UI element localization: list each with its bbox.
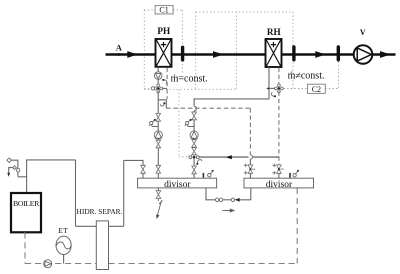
PH balancing tap circle bbox=[150, 122, 153, 125]
riser crossing hop bbox=[250, 155, 252, 159]
duct arrow 4 bbox=[380, 51, 390, 58]
RH supply crossing hop bbox=[194, 106, 196, 111]
safety valve group tee wire bbox=[11, 160, 26, 177]
wire separator to left divisor bbox=[124, 160, 143, 178]
duct arrow 1 bbox=[127, 51, 138, 58]
heat exchanger RH plus bbox=[271, 42, 276, 47]
drain continuation zigzag bbox=[157, 199, 162, 217]
dotted boundary C1 top edge bbox=[144, 9, 182, 11]
RH coil left pipe wire bbox=[194, 67, 269, 106]
PH valve right port wire bbox=[163, 87, 167, 89]
RH balancing tap connector wire bbox=[187, 125, 194, 127]
hydraulic separator left side wire bbox=[75, 160, 77, 226]
check valve circle bbox=[231, 198, 234, 201]
safety group diamond fitting bbox=[7, 158, 12, 163]
safety valve diamond bbox=[13, 166, 17, 170]
RH mixing valve center dot bbox=[278, 87, 280, 89]
air duct segment 2 bbox=[172, 53, 266, 56]
RH supply pipe wire bbox=[193, 111, 195, 178]
check valve arrow bbox=[235, 198, 240, 202]
safety discharge wire bbox=[9, 168, 13, 173]
pump PH coil rotor bbox=[156, 73, 161, 78]
left divisor sensor bar bbox=[203, 173, 205, 178]
dotted sensor line C2 to valve bbox=[284, 88, 339, 90]
PH shutoff valve 1 bbox=[156, 113, 161, 121]
RH shutoff valve 2a bbox=[192, 140, 197, 147]
svg-text:ṁ≠const.: ṁ≠const. bbox=[288, 71, 325, 82]
valve on separator feed bbox=[141, 165, 146, 173]
pump P1 circle bbox=[154, 131, 162, 139]
PH bypass elbow wire bbox=[158, 100, 166, 108]
PH pipe wire bbox=[157, 121, 159, 131]
PH mixing valve 4-port bbox=[154, 84, 163, 93]
left divisor drain valve bbox=[156, 191, 161, 199]
regulating valve right divisor 1 bbox=[244, 164, 255, 175]
RH return dashed pipe lower bbox=[278, 92, 280, 166]
fan V circle bbox=[354, 45, 373, 64]
interconnect wire middle bbox=[223, 199, 231, 201]
RH shutoff valve 1 bbox=[192, 112, 197, 120]
PH return dashed horizontal to riser bbox=[166, 107, 250, 109]
PH sensor hook lower dot bbox=[163, 102, 165, 104]
junction valve center dot bbox=[193, 156, 196, 159]
dotted control boundary C1 left vertical bbox=[143, 10, 145, 89]
RH valve left port arrow bbox=[266, 87, 269, 89]
left divisor drain pipe wire bbox=[157, 188, 159, 191]
mixing header flow arrow left bbox=[226, 155, 232, 159]
air duct segment 1 bbox=[106, 53, 156, 56]
dotted boundary box 2 right vertical bbox=[292, 12, 294, 89]
pump P1 rotor triangle bbox=[155, 132, 162, 139]
PH balancing tap dot bbox=[154, 119, 156, 121]
damper 1 after PH bbox=[181, 46, 184, 62]
junction sensor hook dot bbox=[196, 163, 198, 165]
hydraulic separator right side wire bbox=[123, 160, 125, 226]
RH sensor hook bbox=[271, 92, 274, 96]
dashed riser to right divisor bbox=[249, 108, 251, 155]
flow arrow between divisors bbox=[223, 209, 235, 212]
controller C1 box bbox=[155, 6, 173, 14]
RH balancing tap dot bbox=[190, 119, 192, 121]
svg-text:ET: ET bbox=[58, 226, 68, 235]
svg-text:HIDR. SEPAR.: HIDR. SEPAR. bbox=[77, 207, 123, 216]
node A dot bbox=[117, 53, 120, 56]
interconnect pipe left drop wire bbox=[206, 188, 215, 200]
damper 2 after RH bbox=[292, 45, 295, 61]
junction sensor hook bbox=[197, 160, 202, 164]
heat exchanger RH coil X bbox=[266, 40, 280, 66]
riser wire into valve bbox=[249, 159, 251, 178]
dotted boundary bottom edge bbox=[144, 88, 236, 90]
interconnect wire right bbox=[240, 188, 251, 200]
svg-text:V: V bbox=[360, 28, 366, 37]
dotted boundary box 2 left vertical bbox=[195, 12, 197, 89]
right divisor thermometer bbox=[293, 174, 296, 177]
PH pipe below pump wire bbox=[157, 139, 159, 178]
pump P-boiler circle bbox=[44, 260, 52, 268]
divisor left box bbox=[138, 178, 217, 188]
PH return dashed pipe bbox=[166, 68, 168, 100]
controller C2 box bbox=[308, 84, 326, 93]
PH coil pipe to valve wire bbox=[157, 79, 159, 85]
separator vessel bbox=[96, 221, 108, 270]
pump PH coil circle bbox=[154, 72, 162, 80]
expansion tank connection wire bbox=[63, 255, 65, 264]
PH balancing tap stem bbox=[149, 120, 155, 126]
right divisor sensor bar bbox=[289, 173, 291, 178]
PH sensor hook upper dot bbox=[162, 79, 164, 81]
dotted boundary middle vertical bbox=[235, 12, 237, 89]
drain continuation arrowhead bbox=[156, 214, 159, 219]
heat exchanger PH plus bbox=[161, 42, 166, 47]
svg-text:BOILER: BOILER bbox=[13, 199, 40, 208]
PH mixing valve actuator circle bbox=[151, 87, 154, 90]
wire boiler bottom dashed return bbox=[24, 232, 26, 263]
wire boiler supply riser bbox=[27, 160, 76, 193]
heat exchanger PH coil X bbox=[156, 40, 170, 66]
pump P2 circle bbox=[190, 131, 198, 139]
svg-text:divisor: divisor bbox=[164, 180, 191, 190]
mixing header wire to riser bbox=[199, 156, 279, 158]
svg-text:RH: RH bbox=[267, 27, 281, 37]
junction valve left port circle bbox=[189, 156, 192, 159]
svg-text:C2: C2 bbox=[312, 85, 321, 94]
air duct segment 4 bbox=[372, 53, 395, 56]
RH coil right dashed pipe upper bbox=[278, 68, 280, 86]
pump P2 rotor triangle bbox=[191, 132, 198, 139]
svg-text:C1: C1 bbox=[159, 6, 168, 15]
duct arrow 3 bbox=[315, 51, 326, 58]
pump P-boiler rotor triangle bbox=[45, 261, 52, 266]
PH sensor hook lower bbox=[160, 103, 164, 106]
safety valve body circle bbox=[16, 168, 20, 172]
RH mixing valve 4-port bbox=[275, 84, 284, 93]
svg-text:PH: PH bbox=[157, 26, 170, 36]
left divisor thermometer bbox=[208, 174, 211, 177]
interconnect union circles bbox=[215, 198, 218, 201]
dotted control line C1 to PH mixing valve bbox=[144, 87, 150, 89]
wire dashed return riser right bbox=[296, 188, 298, 264]
RH balancing tap stem bbox=[185, 120, 191, 126]
PH balancing tap connector wire bbox=[151, 125, 158, 127]
PH supply pipe wire bbox=[157, 92, 159, 114]
PH sensor hook upper bbox=[164, 80, 167, 84]
PH mixing valve center dot bbox=[157, 87, 159, 89]
wire bottom dashed return main bbox=[25, 263, 297, 265]
RH balancing tap circle bbox=[186, 122, 189, 125]
RH sensor hook dot bbox=[274, 95, 276, 97]
RH shutoff valve 2b bbox=[192, 148, 197, 155]
dotted control line C1 to junction valve bbox=[179, 89, 188, 157]
safety discharge arrow bbox=[7, 173, 10, 177]
heat exchanger PH box bbox=[156, 39, 172, 67]
wire valve to divisor bbox=[278, 173, 280, 178]
svg-text:A: A bbox=[116, 43, 123, 53]
RH shutoff valve 3 bbox=[192, 166, 197, 174]
PH shutoff valve 3 bbox=[156, 165, 161, 173]
damper 3 before fan bbox=[337, 45, 340, 61]
regulating valve right divisor 2 bbox=[272, 164, 283, 175]
svg-text:divisor: divisor bbox=[266, 180, 293, 190]
RH valve left port wire bbox=[269, 87, 274, 89]
junction valve right port circle bbox=[196, 156, 199, 159]
hydraulic separator bottom wire bbox=[76, 225, 124, 227]
dotted boundary box 2 top edge bbox=[196, 11, 293, 13]
expansion tank membrane wave bbox=[56, 242, 71, 249]
PH coil left pipe wire bbox=[157, 67, 159, 72]
fan V impeller triangle bbox=[357, 48, 371, 61]
dotted control boundary C1 right vertical bbox=[181, 10, 183, 74]
svg-text:ṁ=const.: ṁ=const. bbox=[171, 73, 208, 84]
dotted sensor line duct sensor to C2 bbox=[338, 62, 340, 89]
boiler B bbox=[11, 193, 41, 232]
PH shutoff valve 2 bbox=[156, 140, 161, 148]
duct arrow 2 bbox=[213, 51, 224, 58]
divisor right box bbox=[244, 178, 314, 188]
heat exchanger RH box bbox=[266, 39, 282, 67]
expansion tank ET vessel bbox=[56, 236, 71, 254]
air duct segment 3 bbox=[282, 53, 354, 56]
